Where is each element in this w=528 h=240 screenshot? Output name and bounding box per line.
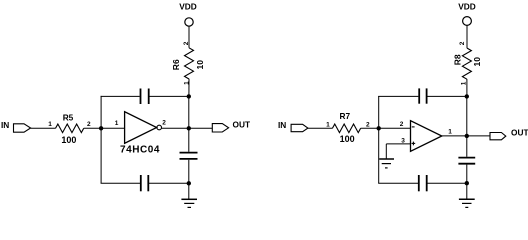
svg-text:OUT: OUT: [511, 128, 528, 138]
svg-text:74HC04: 74HC04: [120, 145, 160, 156]
svg-text:100: 100: [61, 135, 76, 145]
svg-text:IN: IN: [278, 120, 286, 130]
svg-text:R5: R5: [63, 112, 74, 122]
svg-text:VDD: VDD: [179, 2, 197, 12]
svg-text:2: 2: [183, 41, 190, 45]
svg-text:2: 2: [162, 119, 166, 126]
svg-text:1: 1: [48, 121, 52, 128]
svg-text:10: 10: [472, 57, 482, 67]
svg-text:10: 10: [195, 60, 205, 70]
svg-text:VDD: VDD: [458, 1, 476, 11]
svg-text:3: 3: [401, 138, 405, 145]
svg-text:1: 1: [183, 81, 190, 85]
svg-text:OUT: OUT: [233, 120, 251, 130]
svg-text:1: 1: [448, 129, 452, 136]
svg-text:R6: R6: [171, 59, 181, 70]
svg-text:2: 2: [366, 121, 370, 128]
svg-text:R7: R7: [339, 111, 350, 121]
svg-text:R8: R8: [453, 54, 463, 65]
svg-text:1: 1: [326, 121, 330, 128]
svg-text:2: 2: [459, 41, 466, 45]
svg-text:100: 100: [340, 134, 355, 144]
svg-text:2: 2: [87, 121, 91, 128]
svg-text:1: 1: [460, 81, 467, 85]
svg-text:1: 1: [115, 120, 119, 127]
svg-text:2: 2: [400, 121, 404, 128]
svg-text:IN: IN: [1, 120, 9, 130]
